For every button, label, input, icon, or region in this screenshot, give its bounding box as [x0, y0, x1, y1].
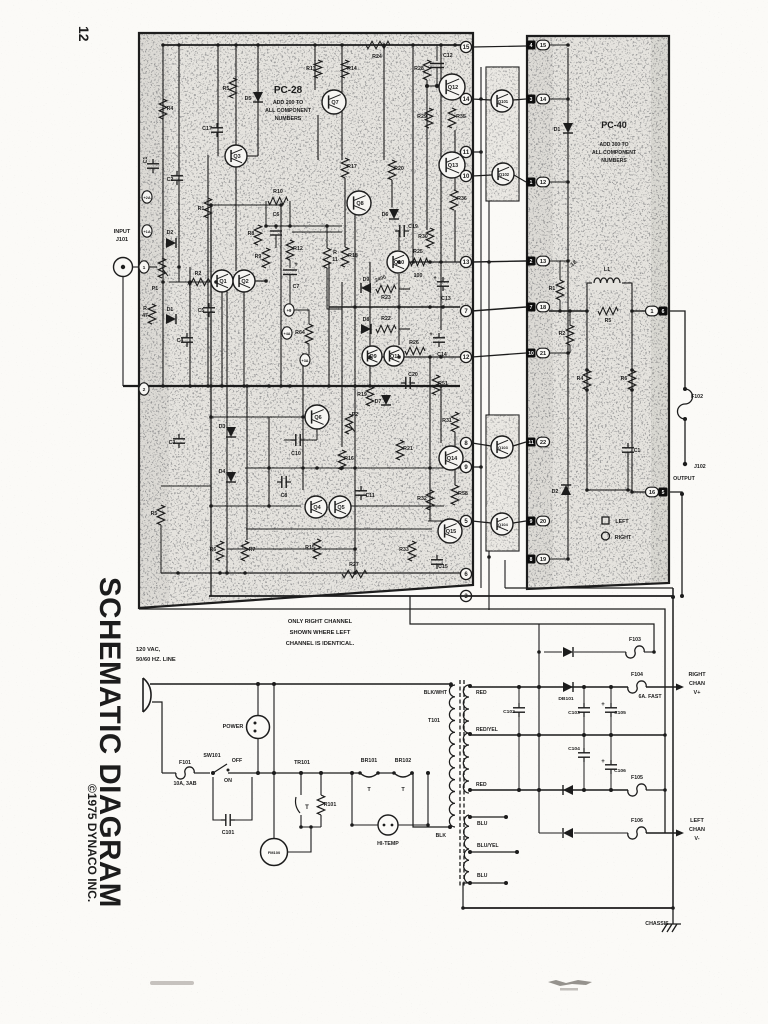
wire horizontal [292, 231, 342, 233]
svg-text:R4: R4 [577, 376, 584, 382]
svg-text:POWER: POWER [223, 724, 244, 730]
diode D2 [166, 238, 176, 248]
wire horizontal pin13 row [390, 261, 460, 263]
pin 2 [139, 383, 149, 395]
fuse F101 [176, 767, 194, 779]
wire top supply bus [163, 44, 466, 46]
svg-text:F106: F106 [631, 818, 643, 824]
junction [439, 355, 443, 359]
svg-text:C3: C3 [169, 440, 176, 446]
svg-text:C19: C19 [408, 224, 418, 230]
junction [299, 825, 303, 829]
wire vertical [454, 130, 456, 190]
diode rectifier lower [563, 785, 573, 795]
svg-text:R26: R26 [409, 340, 419, 346]
wire vertical [398, 274, 400, 345]
chassis ground symbol [662, 908, 681, 932]
wire breaker link [378, 772, 394, 774]
junction [410, 771, 414, 775]
wire gap vertical [488, 67, 490, 610]
junction [585, 309, 589, 313]
diode D1 [563, 123, 573, 133]
svg-text:Q8: Q8 [356, 201, 363, 207]
wire vertical [235, 167, 237, 271]
junction [301, 415, 305, 419]
svg-text:INPUT: INPUT [114, 229, 131, 235]
wire vertical stub [504, 560, 506, 588]
diode D6 [389, 209, 399, 219]
wire vertical [344, 178, 346, 247]
junction [188, 384, 192, 388]
resistor R9 [262, 248, 269, 268]
junction [214, 280, 218, 284]
wire F105 out [646, 789, 665, 791]
junction [630, 388, 634, 392]
wire C10 [284, 439, 291, 441]
AC plug [143, 678, 151, 712]
connector pin 8/19 PC-40 edge [527, 555, 536, 564]
transistor Q9 [362, 346, 382, 366]
capacitor C13 [442, 277, 444, 282]
junction [353, 384, 357, 388]
junction [566, 557, 570, 561]
smudge [150, 981, 194, 985]
resistor R11 [323, 248, 330, 268]
capacitor C15 [436, 555, 438, 560]
junction [206, 384, 210, 388]
svg-text:10: 10 [528, 351, 534, 357]
wire R11 column [327, 226, 342, 309]
diode DB101 [563, 682, 573, 692]
connector pin 2/13 PC-40 edge [527, 257, 536, 266]
junction [242, 384, 246, 388]
svg-text:11: 11 [332, 257, 338, 263]
junction [161, 384, 165, 388]
resistor R33 [408, 541, 415, 561]
wire vertical [369, 262, 371, 386]
junction [426, 823, 430, 827]
transistor Q12 [439, 74, 465, 100]
capacitor C14 [438, 333, 440, 338]
wire pin12 row [472, 353, 526, 357]
capacitor C3 [178, 434, 180, 439]
junction [243, 571, 247, 575]
svg-text:R19: R19 [357, 392, 367, 398]
wire Q104 out [513, 521, 526, 523]
resistor R5 [229, 78, 236, 98]
transistor Q103 [491, 436, 513, 458]
svg-text:Q104: Q104 [498, 522, 508, 527]
svg-text:Q14: Q14 [447, 456, 458, 462]
svg-text:C103: C103 [568, 710, 580, 716]
svg-text:47: 47 [142, 313, 148, 319]
junction [585, 388, 589, 392]
junction [487, 555, 491, 559]
svg-text:D9: D9 [363, 277, 370, 283]
svg-text:6A. FAST: 6A. FAST [638, 694, 662, 700]
junction [218, 571, 222, 575]
resistor R22 [376, 325, 396, 332]
svg-text:1: 1 [530, 180, 533, 186]
resistor R51 [432, 375, 439, 395]
wire horizontal Q4 Q5 row [246, 528, 432, 530]
transistor Q11 [384, 346, 404, 366]
svg-text:+: + [294, 262, 298, 268]
wire blu/yel [470, 851, 517, 853]
junction [353, 466, 357, 470]
svg-text:C15: C15 [438, 564, 448, 570]
svg-text:R15: R15 [305, 545, 315, 551]
pin 3 PC-28 edge [460, 590, 471, 601]
diode D9 [361, 283, 371, 293]
capacitor C10 [291, 439, 296, 441]
svg-text:+: + [433, 276, 437, 282]
wire horizontal [211, 416, 303, 418]
junction [626, 488, 630, 492]
svg-text:R2: R2 [195, 271, 202, 277]
wire vertical [426, 80, 428, 230]
wire diode row [544, 651, 562, 653]
junction [453, 43, 457, 47]
junction [558, 309, 562, 313]
svg-text:D1: D1 [554, 127, 561, 133]
svg-text:OUTPUT: OUTPUT [673, 476, 695, 482]
resistor R31 [451, 412, 458, 432]
junction [256, 43, 260, 47]
svg-text:C11: C11 [365, 493, 374, 499]
svg-text:RED: RED [476, 782, 487, 788]
junction [439, 260, 443, 264]
svg-text:C1: C1 [634, 448, 641, 454]
resistor R30 [426, 228, 433, 248]
wire fan drop [273, 684, 275, 839]
transformer T101 primary [449, 685, 455, 827]
resistor R29 [425, 108, 432, 128]
pin 15 PC-28 edge [460, 41, 471, 52]
svg-text:C6: C6 [273, 212, 280, 218]
junction [461, 906, 465, 910]
svg-text:18: 18 [540, 305, 546, 311]
wire vertical [391, 180, 393, 207]
junction [428, 466, 432, 470]
junction [630, 309, 634, 313]
svg-text:C104: C104 [568, 746, 580, 752]
resistor R18 [341, 247, 348, 267]
wire vertical [226, 282, 228, 574]
svg-text:Q15: Q15 [446, 529, 456, 535]
svg-text:C5: C5 [198, 308, 205, 314]
transistor Q13 [439, 152, 465, 178]
svg-text:NUMBERS: NUMBERS [275, 116, 302, 122]
svg-text:R5: R5 [605, 318, 612, 324]
wire horizontal pin8 row [245, 467, 463, 469]
svg-text:Q1: Q1 [219, 279, 226, 285]
svg-text:Q102: Q102 [499, 172, 510, 177]
capacitor C7 [289, 260, 291, 268]
resistor R5 [598, 307, 618, 314]
junction [220, 384, 224, 388]
junction [288, 224, 292, 228]
svg-text:DB101: DB101 [558, 696, 574, 702]
svg-text:+4A: +4A [284, 332, 291, 336]
wire fuse leads [162, 772, 176, 774]
wire vertical to rectifier [538, 624, 540, 652]
svg-text:R2: R2 [559, 331, 566, 337]
svg-text:R17: R17 [347, 164, 357, 170]
capacitor C20 [401, 382, 406, 384]
wire C102 column [518, 735, 520, 790]
svg-text:R23: R23 [381, 295, 391, 301]
svg-text:ADD 200 TO: ADD 200 TO [273, 100, 303, 106]
junction [411, 260, 415, 264]
transistor Q4 [305, 496, 327, 518]
svg-text:Q101: Q101 [498, 99, 509, 104]
wire vertical [280, 205, 282, 386]
svg-text:11: 11 [463, 150, 470, 156]
resistor R23 [376, 285, 396, 292]
wire input to P1 [149, 266, 157, 268]
wire gap vertical [480, 67, 482, 588]
svg-text:C101: C101 [222, 830, 235, 836]
junction [566, 43, 570, 47]
capacitor C106 [610, 735, 612, 760]
wire pin rows PC-40 [549, 44, 568, 46]
fuse F103 [626, 646, 644, 658]
connector pin 11/22 PC-40 edge [527, 438, 536, 447]
svg-text:PC-28: PC-28 [274, 85, 303, 96]
wire vertical [210, 205, 212, 596]
svg-text:R10: R10 [273, 189, 283, 195]
connector pin 10/21 PC-40 edge [527, 349, 536, 358]
wire rectifier vertical [538, 652, 540, 833]
wire output pin2 [632, 491, 646, 493]
wire primary bottom [413, 773, 450, 827]
wire lower red row [470, 789, 628, 791]
svg-text:15: 15 [540, 43, 547, 49]
wire output to fuse [669, 311, 685, 389]
wire vertical [268, 417, 270, 506]
wire blu [470, 816, 506, 818]
svg-text:R: R [333, 250, 337, 256]
connector pin 3/14 PC-40 edge [527, 95, 536, 104]
resistor R1 [204, 198, 211, 218]
diode D2 [561, 485, 571, 495]
svg-text:P2: P2 [352, 412, 359, 418]
wire R10 branch [266, 201, 290, 226]
capacitor C2 [176, 171, 178, 176]
wire horizontal pin7 row [329, 306, 460, 308]
pin 1 [139, 261, 149, 273]
svg-text:C20: C20 [408, 372, 418, 378]
svg-text:Q5: Q5 [337, 505, 344, 511]
svg-text:+3A: +3A [302, 359, 309, 363]
resistor R13 [314, 60, 321, 78]
svg-text:BLU/YEL: BLU/YEL [477, 843, 499, 849]
svg-text:CHAN: CHAN [689, 827, 705, 833]
resistor R25 [410, 258, 428, 265]
wire PC-40 vertical [567, 48, 569, 560]
junction [479, 97, 483, 101]
svg-text:Q103: Q103 [498, 445, 508, 450]
wire vertical [341, 282, 343, 447]
wire pin10 to Q102 [472, 175, 492, 176]
transformer secondary upper [463, 685, 469, 793]
wire vertical [398, 230, 400, 250]
junction [663, 788, 667, 792]
svg-text:16: 16 [649, 490, 655, 496]
junction [274, 224, 278, 228]
svg-text:R7: R7 [249, 547, 256, 553]
junction [177, 43, 181, 47]
test point +4A [282, 327, 292, 339]
svg-text:HI-TEMP: HI-TEMP [377, 841, 399, 847]
wire pin5 to Q104 [472, 521, 491, 523]
transistor Q8 [347, 191, 371, 215]
wire horizontal [399, 328, 410, 330]
junction [264, 224, 268, 228]
junction [216, 43, 220, 47]
wire horizontal [161, 485, 211, 487]
wire pin7 row [472, 307, 526, 311]
svg-text:RIGHT: RIGHT [688, 672, 706, 678]
wire Q3 collector [247, 155, 258, 157]
connector pin 1/6 PC-40 right edge [646, 306, 659, 316]
potentiometer P1 [158, 258, 165, 278]
wire vertical [440, 386, 442, 443]
svg-text:+: + [601, 702, 605, 708]
svg-text:©1975 DYNACO INC.: ©1975 DYNACO INC. [85, 784, 99, 902]
svg-text:C7: C7 [293, 284, 300, 290]
potentiometer P2 [345, 414, 352, 434]
wire vertical [314, 45, 316, 90]
junction [353, 571, 357, 575]
wire Q101 out [513, 99, 526, 100]
junction [301, 466, 305, 470]
svg-text:R20: R20 [394, 166, 404, 172]
switch SW101 [211, 771, 215, 775]
svg-text:P1: P1 [152, 286, 159, 292]
transistor Q6 [305, 405, 329, 429]
wire horizontal pin6 row [161, 572, 463, 574]
svg-text:R36: R36 [457, 196, 467, 202]
legend right [602, 532, 610, 540]
wire vertical [317, 115, 319, 160]
resistor R14 [341, 60, 348, 78]
diode D3 [226, 427, 236, 437]
junction [279, 384, 283, 388]
output network box [587, 283, 632, 490]
wire vertical [189, 267, 191, 386]
capacitor C19 [395, 230, 400, 232]
svg-text:OFF: OFF [232, 758, 243, 764]
wire R64 [294, 310, 309, 355]
svg-text:V-: V- [694, 836, 699, 842]
junction [267, 504, 271, 508]
svg-text:D4: D4 [219, 469, 226, 475]
resistor R2 [566, 325, 573, 345]
svg-text:C13: C13 [441, 296, 451, 302]
svg-text:C12: C12 [443, 53, 453, 59]
svg-text:21: 21 [540, 351, 547, 357]
svg-text:RED/YEL: RED/YEL [476, 727, 498, 733]
svg-text:2: 2 [530, 259, 533, 265]
svg-text:ONLY RIGHT CHANNEL: ONLY RIGHT CHANNEL [288, 619, 353, 625]
svg-text:7: 7 [530, 305, 533, 311]
diode rectifier bottom [563, 828, 573, 838]
diode D1 [166, 314, 176, 324]
svg-text:CHANNEL IS IDENTICAL.: CHANNEL IS IDENTICAL. [286, 641, 355, 647]
junction [327, 384, 331, 388]
capacitor C11 [360, 486, 362, 491]
wire R2 stub [569, 311, 571, 325]
wire horizontal [399, 288, 410, 290]
junction [234, 43, 238, 47]
svg-text:R22: R22 [381, 316, 391, 322]
wire vertical [354, 203, 356, 574]
wire center tap row [470, 734, 665, 736]
svg-text:T101: T101 [428, 718, 440, 724]
junction [671, 906, 675, 910]
svg-text:T: T [305, 805, 309, 811]
transistor Q15 [438, 519, 462, 543]
svg-text:R: R [143, 306, 147, 312]
svg-text:12: 12 [463, 355, 470, 361]
resistor R24 [366, 41, 390, 48]
junction [585, 368, 589, 372]
junction [479, 150, 483, 154]
svg-text:R16: R16 [344, 456, 354, 462]
wire horizontal pin5 row [428, 520, 460, 522]
svg-text:+1A: +1A [143, 229, 151, 234]
svg-text:ON: ON [224, 778, 232, 784]
svg-text:11: 11 [528, 440, 534, 446]
wire vertical [207, 155, 209, 386]
wire ground bus [123, 385, 460, 387]
svg-text:D7: D7 [375, 399, 382, 405]
svg-text:PC-40: PC-40 [601, 120, 627, 130]
junction [439, 43, 443, 47]
svg-text:R33: R33 [399, 547, 409, 553]
transistor Q3 [225, 145, 247, 167]
connector pin 16/5 PC-40 right edge [646, 487, 659, 497]
svg-text:D2: D2 [552, 489, 559, 495]
capacitor C103 [583, 687, 585, 703]
pin 6 PC-28 edge [460, 568, 471, 579]
wire gap top [472, 46, 526, 47]
test point +3A [300, 354, 310, 366]
capacitor C104 [583, 735, 585, 748]
svg-text:J102: J102 [694, 464, 706, 470]
wire vertical [235, 45, 237, 145]
capacitor C12 [436, 45, 438, 61]
resistor R12 [286, 240, 293, 260]
resistor R19 [366, 386, 373, 406]
smudge [548, 980, 592, 986]
svg-text:20: 20 [540, 519, 546, 525]
junction [188, 280, 192, 284]
resistor R101 [320, 773, 322, 795]
svg-text:LEFT: LEFT [615, 519, 629, 525]
resistor R6 [216, 541, 223, 561]
transformer secondary lower [464, 815, 469, 883]
capacitor C1 [627, 443, 629, 448]
junction [209, 203, 213, 207]
pin 5 PC-28 edge [460, 515, 471, 526]
svg-text:R5: R5 [223, 86, 230, 92]
wire right bus vertical [672, 588, 674, 908]
svg-text:3: 3 [530, 97, 533, 103]
wire V+ row [470, 686, 628, 688]
